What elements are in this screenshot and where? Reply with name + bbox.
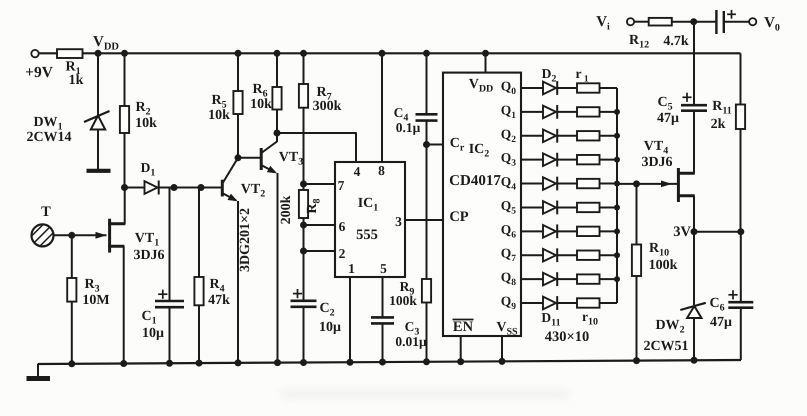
junction bus row xyxy=(614,252,620,258)
diode D10 xyxy=(543,273,556,286)
terminal Vo xyxy=(749,18,756,25)
resistor r3 xyxy=(577,131,600,140)
resistor R9 100k xyxy=(426,145,428,280)
junction C1 tap xyxy=(171,184,178,191)
wire cap to Vo xyxy=(724,21,749,23)
svg-text:VDD: VDD xyxy=(93,34,119,53)
wire D1 cathode to VT2 base xyxy=(159,187,222,189)
wire D3 to r2 xyxy=(557,111,577,113)
resistor R4 47k xyxy=(198,188,200,278)
svg-text:6: 6 xyxy=(339,219,346,234)
svg-text:C2: C2 xyxy=(319,301,334,319)
resistor r10 xyxy=(577,298,600,307)
svg-text:CD4017: CD4017 xyxy=(449,173,501,189)
zener diode DW2 2CW51 xyxy=(693,232,695,305)
junction R4 tap xyxy=(198,184,205,191)
svg-text:D11: D11 xyxy=(541,310,560,329)
svg-text:2CW14: 2CW14 xyxy=(26,130,71,145)
wire VT2 collector to VT3 base xyxy=(238,157,260,159)
wire to 555 pin 7 xyxy=(304,183,336,185)
svg-text:10k: 10k xyxy=(250,97,272,112)
svg-text:C1: C1 xyxy=(141,309,156,327)
svg-text:47k: 47k xyxy=(208,293,230,308)
svg-text:R3: R3 xyxy=(84,277,99,295)
wire VT2 emitter to ground xyxy=(237,201,239,363)
wire to 555 pin 2 xyxy=(304,250,336,252)
transistor VT1 3DJ6 (FET) xyxy=(108,219,111,253)
diode D6 xyxy=(543,177,556,190)
wire D4 to r3 xyxy=(557,135,577,137)
resistor R11 2k xyxy=(740,53,742,104)
svg-text:VT4: VT4 xyxy=(644,139,668,157)
wire VT3 emitter to ground xyxy=(277,173,279,363)
svg-text:7: 7 xyxy=(338,178,345,193)
output coupling capacitor (to Vo) xyxy=(715,10,717,34)
wire: diode-OR bus xyxy=(616,88,618,303)
junction R8-pin6 xyxy=(300,222,307,229)
svg-text:10μ: 10μ xyxy=(142,326,164,341)
VT2 emitter with arrow xyxy=(223,194,236,201)
junction gate-R3 xyxy=(68,232,75,239)
wire to D1 xyxy=(125,187,145,189)
diode D11 xyxy=(543,297,556,310)
wire r5 to bus xyxy=(600,183,618,185)
junction bus row xyxy=(614,181,620,187)
node: D1 anode junction (R2/VT1 drain) xyxy=(121,184,128,191)
svg-text:R12: R12 xyxy=(629,33,649,51)
wire r6 to bus xyxy=(600,206,618,208)
diode D5 xyxy=(543,153,556,166)
svg-text:C6: C6 xyxy=(709,296,724,314)
junction bus row xyxy=(614,276,620,282)
resistor R3 10M xyxy=(71,235,73,278)
junction C4-R9-Cr xyxy=(423,141,430,148)
svg-text:3DJ6: 3DJ6 xyxy=(133,248,164,263)
wire bus to VT4 gate xyxy=(617,183,677,185)
capacitor C1 10u xyxy=(169,188,171,302)
zener diode DW1 2CW14 xyxy=(97,53,99,115)
resistor r4 xyxy=(577,155,600,164)
counter IC2 CD4017 box xyxy=(443,73,521,336)
VT2 collector xyxy=(223,158,238,183)
svg-text:300k: 300k xyxy=(313,99,342,114)
transistor VT2 (base bar) xyxy=(221,180,224,197)
wire r8 to bus xyxy=(600,254,618,256)
wire D6 to r5 xyxy=(557,183,577,185)
svg-text:4: 4 xyxy=(354,164,361,179)
wire D10 to r9 xyxy=(557,278,577,280)
svg-text:200k: 200k xyxy=(279,195,294,224)
svg-text:555: 555 xyxy=(356,227,378,243)
junction bus row xyxy=(614,109,620,115)
wire IC2 EN pin to ground xyxy=(460,336,462,362)
wire: VDD top rail xyxy=(39,52,741,54)
junction pin2 node xyxy=(300,248,307,255)
junction gate-R10 xyxy=(633,180,640,187)
wire R12 to output cap xyxy=(672,21,716,23)
svg-text:2: 2 xyxy=(339,246,346,261)
VT3 emitter with arrow xyxy=(262,166,275,173)
svg-text:C5: C5 xyxy=(657,95,672,113)
junction C2-ground xyxy=(300,359,307,366)
wire D2 to r1 xyxy=(557,87,577,89)
svg-text:D1: D1 xyxy=(141,160,156,179)
diode D1 xyxy=(145,181,158,194)
resistor r1 xyxy=(577,83,600,92)
svg-text:R10: R10 xyxy=(649,241,669,259)
resistor r5 xyxy=(577,179,600,188)
wire 555 pin 5 to C3 xyxy=(382,277,384,317)
junction VDD-R2 xyxy=(121,50,128,57)
junction C1-ground xyxy=(166,360,173,367)
wire r7 to bus xyxy=(600,230,618,232)
ground bar of DW1 xyxy=(87,169,111,173)
capacitor C3 0.01u xyxy=(371,316,394,319)
svg-text:3DG201×2: 3DG201×2 xyxy=(238,208,253,272)
junction VT1 source-ground xyxy=(120,360,127,367)
diode D2 xyxy=(543,82,556,95)
svg-text:DW2: DW2 xyxy=(655,318,684,336)
svg-text:2CW51: 2CW51 xyxy=(643,339,688,354)
wire D7 to r6 xyxy=(557,206,577,208)
wire pin6 node to pin2 node xyxy=(303,225,305,251)
svg-text:R4: R4 xyxy=(209,277,224,295)
svg-text:R11: R11 xyxy=(712,99,732,117)
capacitor C4 0.1u (power-on reset) xyxy=(426,53,428,114)
capacitor C2 10u xyxy=(303,251,305,301)
wire 555 pin 1 to ground xyxy=(349,277,351,362)
wire D9 to r8 xyxy=(557,254,577,256)
wire 555 pin 8 to VDD rail xyxy=(381,53,383,162)
svg-text:1: 1 xyxy=(348,261,355,276)
gate arrow of VT4 xyxy=(661,181,672,188)
svg-text:R2: R2 xyxy=(135,100,150,118)
svg-text:100k: 100k xyxy=(649,258,678,273)
svg-text:10M: 10M xyxy=(82,293,109,308)
wire Vi to R12 xyxy=(634,21,649,23)
wire r4 to bus xyxy=(600,159,618,161)
wire T to VT1 gate xyxy=(54,234,107,236)
svg-text:47μ: 47μ xyxy=(657,111,679,126)
wire to 555 pin 6 xyxy=(304,224,336,226)
junction bus row xyxy=(614,204,620,210)
wire D11 to r10 xyxy=(557,302,577,304)
wire 555 pin 3 to CP of IC2 xyxy=(405,219,443,221)
transistor VT4 3DJ6 (FET) xyxy=(677,168,680,202)
svg-text:100k: 100k xyxy=(389,293,417,308)
svg-text:VT2: VT2 xyxy=(241,182,265,200)
junction bus row xyxy=(614,157,620,163)
svg-text:8: 8 xyxy=(378,163,385,178)
svg-text:3: 3 xyxy=(395,214,402,229)
svg-text:10μ: 10μ xyxy=(319,320,341,335)
capacitor C6 47u xyxy=(740,232,742,303)
wire r9 to bus xyxy=(600,278,618,280)
resistor R8 200k xyxy=(303,184,305,190)
junction rail-R5 xyxy=(235,50,242,57)
junction VT2 collector / R5 xyxy=(235,154,242,161)
resistor r8 xyxy=(577,251,600,260)
resistor R2 10k xyxy=(124,53,126,106)
gate arrow of VT1 xyxy=(96,232,107,239)
junction bus row xyxy=(614,228,620,234)
svg-text:10k: 10k xyxy=(208,108,230,123)
svg-text:0.01μ: 0.01μ xyxy=(395,334,427,349)
resistor R5 10k xyxy=(237,53,239,91)
VT3 collector xyxy=(262,142,277,153)
svg-text:CP: CP xyxy=(449,209,468,225)
diode D3 xyxy=(543,106,556,119)
resistor R1 1k xyxy=(57,49,83,58)
node 3V xyxy=(691,228,698,235)
resistor R12 4.7k xyxy=(649,18,672,26)
wire to IC2 Cr pin xyxy=(427,144,444,146)
svg-text:T: T xyxy=(41,204,51,220)
junction R7-R8-pin7 xyxy=(300,181,307,188)
resistor r9 xyxy=(577,274,600,283)
wire: ground bottom rail xyxy=(38,360,741,364)
wire r3 to bus xyxy=(600,135,618,137)
svg-text:3DJ6: 3DJ6 xyxy=(641,155,672,170)
svg-text:47μ: 47μ xyxy=(710,315,732,330)
diode D9 xyxy=(543,249,556,262)
junction R12/C5/output-cap xyxy=(690,18,697,25)
svg-text:+9V: +9V xyxy=(25,64,54,81)
terminal +9V xyxy=(31,50,38,57)
svg-text:5: 5 xyxy=(380,261,387,276)
svg-text:3V: 3V xyxy=(673,224,691,240)
svg-text:r10: r10 xyxy=(582,309,598,328)
junction VDD-DW1 xyxy=(95,50,102,57)
junction bus row xyxy=(614,133,620,139)
wire 3V node to R11/C6 branch xyxy=(694,231,741,233)
svg-text:430×10: 430×10 xyxy=(545,329,590,345)
svg-text:VT1: VT1 xyxy=(135,231,159,249)
wire to 555 pin 4 xyxy=(277,133,356,162)
svg-text:r 1: r 1 xyxy=(575,66,588,85)
wire D8 to r7 xyxy=(557,230,577,232)
wire IC2 VDD pin to rail xyxy=(485,53,487,72)
svg-text:VT3: VT3 xyxy=(279,150,303,168)
resistor R7 300k xyxy=(303,53,305,84)
transistor VT3 (base bar) xyxy=(260,148,263,170)
resistor r6 xyxy=(577,203,600,212)
junction R3-ground xyxy=(68,360,75,367)
capacitor C5 47u xyxy=(693,22,695,106)
diode D7 xyxy=(543,201,556,214)
wire r1 to bus xyxy=(600,87,618,89)
wire D5 to r4 xyxy=(557,159,577,161)
svg-text:10k: 10k xyxy=(135,116,157,131)
ground symbol (left) xyxy=(37,364,39,377)
wire IC2 VSS pin to ground xyxy=(501,336,503,361)
resistor R6 10k xyxy=(276,53,278,87)
svg-text:2k: 2k xyxy=(711,117,726,132)
svg-text:4.7k: 4.7k xyxy=(663,34,689,49)
resistor r7 xyxy=(577,227,600,236)
svg-text:1k: 1k xyxy=(69,73,84,88)
junction rail-R6 xyxy=(274,50,281,57)
wire r10 to bus xyxy=(600,302,618,304)
svg-text:V0: V0 xyxy=(764,15,780,34)
svg-text:0.1μ: 0.1μ xyxy=(396,120,421,135)
diode D8 xyxy=(543,225,556,238)
op-amp/timer IC1 555 box xyxy=(335,162,405,277)
svg-text:EN: EN xyxy=(453,319,474,335)
wire r2 to bus xyxy=(600,111,618,113)
junction R4-ground xyxy=(196,360,203,367)
resistor r2 xyxy=(577,107,600,116)
diode D4 xyxy=(543,129,556,142)
junction rail-R7 xyxy=(300,50,307,57)
svg-text:Vi: Vi xyxy=(596,14,610,33)
junction R6/VT3 collector/pin4 wire xyxy=(274,130,281,137)
resistor R10 100k xyxy=(636,184,638,245)
